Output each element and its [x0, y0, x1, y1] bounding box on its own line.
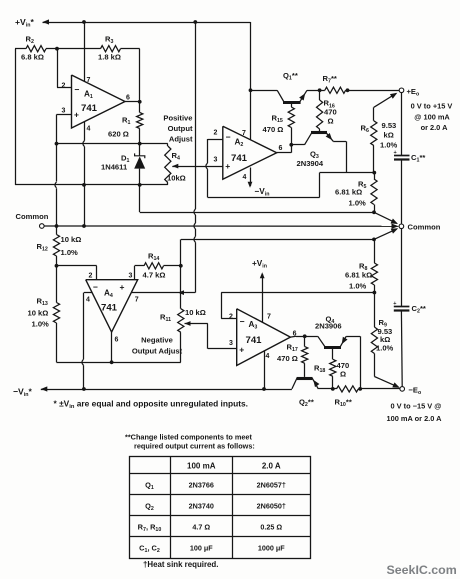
svg-text:1.0%: 1.0% — [380, 141, 398, 150]
svg-text:1N4611: 1N4611 — [101, 163, 128, 172]
svg-text:4: 4 — [243, 174, 247, 181]
svg-text:741: 741 — [81, 103, 98, 114]
svg-text:2: 2 — [229, 314, 233, 321]
svg-text:SeekIC.com: SeekIC.com — [387, 563, 457, 577]
wire A3 pin4 to -Vin rail — [264, 351, 266, 389]
svg-text:2.0 A: 2.0 A — [262, 462, 281, 471]
svg-text:7: 7 — [267, 314, 271, 321]
svg-text:6: 6 — [279, 145, 283, 152]
potentiometer R4 positive adjust — [165, 144, 186, 185]
wire Q4 collector drop — [360, 336, 362, 389]
resistor R9 — [371, 293, 393, 377]
junction Q4 drop/-Eo run — [358, 387, 362, 391]
wire A1-out drop to R11 column — [194, 22, 196, 293]
label -Eo output rating — [387, 402, 443, 424]
transistor Q1 — [251, 71, 320, 103]
svg-text:−: − — [75, 85, 80, 95]
wire A4 pin6 — [111, 332, 113, 362]
svg-text:−: − — [226, 132, 231, 142]
resistor R2 — [21, 35, 46, 62]
svg-text:4.7 Ω: 4.7 Ω — [192, 523, 210, 532]
svg-text:4.7 kΩ: 4.7 kΩ — [143, 271, 166, 280]
component table — [129, 456, 311, 559]
wire R2-R3 top — [15, 48, 140, 50]
svg-text:620 Ω: 620 Ω — [108, 130, 129, 139]
transistor Q4 — [305, 315, 361, 360]
wire A3 pin7 +Vin arrow — [260, 272, 265, 322]
wire A2 pin7 from +Vin — [250, 22, 252, 140]
watermark — [387, 563, 457, 577]
net +Vin label at A3 — [252, 259, 267, 270]
wire +Eo sense diagonal — [374, 93, 398, 108]
net -Vin label at A2 — [255, 187, 270, 198]
terminal -Eo — [400, 385, 422, 396]
wire A1 pin2 — [57, 49, 72, 88]
junction A4 pin6/output line — [110, 360, 114, 364]
label unregulated inputs footnote — [54, 399, 249, 411]
transistor Q2 — [292, 377, 320, 409]
wire R11 wiper to A3 pin3 — [185, 324, 237, 349]
junction R8 top/lower rail — [372, 238, 376, 242]
wire zener-anode node line — [15, 184, 168, 186]
svg-text:4: 4 — [86, 297, 90, 304]
svg-text:6.8 kΩ: 6.8 kΩ — [21, 53, 44, 62]
svg-text:3: 3 — [62, 108, 66, 115]
svg-text:3: 3 — [214, 157, 218, 164]
svg-text:741: 741 — [231, 153, 248, 164]
svg-text:Output Adjust: Output Adjust — [132, 347, 183, 356]
wire Q3 emitter sense drop — [346, 141, 348, 172]
label positive output adjust — [163, 113, 193, 143]
svg-text:Negative: Negative — [141, 336, 173, 345]
svg-text:7: 7 — [135, 297, 139, 304]
svg-text:2N6057†: 2N6057† — [257, 481, 286, 490]
junction R7/+Eo wire — [346, 88, 350, 92]
svg-text:1.0%: 1.0% — [349, 282, 367, 291]
svg-text:741: 741 — [101, 303, 118, 314]
svg-text:100 μF: 100 μF — [190, 544, 213, 553]
net -Vin label bottom — [13, 387, 32, 399]
svg-text:1.0%: 1.0% — [376, 344, 394, 353]
wire A4 output line — [57, 362, 181, 364]
svg-text:Positive: Positive — [163, 113, 192, 122]
svg-text:6: 6 — [115, 337, 119, 344]
resistor R3 — [98, 35, 121, 62]
wire R1 bottom lead — [139, 129, 141, 144]
junction common/A1 pin4 — [82, 224, 86, 228]
wire A1 pin7 supply — [84, 22, 86, 82]
label table heading — [125, 432, 255, 450]
resistor R16 — [317, 90, 337, 131]
svg-text:10 kΩ: 10 kΩ — [61, 235, 82, 244]
svg-text:1000 μF: 1000 μF — [258, 544, 285, 553]
junction +Vin/A1 pin7 — [82, 20, 86, 24]
svg-text:6: 6 — [126, 95, 130, 102]
svg-text:Common: Common — [16, 212, 49, 221]
wire Common rail — [44, 224, 398, 229]
wire A4 pin7 to R11 top — [131, 290, 195, 295]
capacitor C1 — [394, 93, 426, 224]
svg-text:kΩ: kΩ — [384, 131, 394, 140]
wire lower rail to common — [181, 239, 374, 241]
wire R4 wiper to A2 pin3 — [172, 166, 223, 168]
capacitor C2 — [393, 229, 426, 387]
svg-text:Common: Common — [408, 223, 441, 232]
junction A2 out/R15/Q3 collector — [289, 143, 293, 147]
resistor R15 — [263, 103, 295, 145]
wire zener-node rail to common arrow — [140, 185, 375, 213]
svg-text:Ω: Ω — [328, 117, 334, 126]
svg-text:0.25 Ω: 0.25 Ω — [260, 523, 282, 532]
svg-text:6.81 kΩ: 6.81 kΩ — [335, 188, 362, 197]
svg-text:@ 100 mA: @ 100 mA — [414, 112, 450, 121]
svg-text:1.0%: 1.0% — [32, 320, 50, 329]
transistor Q3 — [291, 133, 346, 169]
svg-text:4: 4 — [266, 353, 270, 360]
junction Q1 emitter/R7/R16 — [318, 88, 322, 92]
resistor R1 — [108, 102, 143, 139]
wire Vref line — [57, 143, 168, 145]
svg-text:1.0%: 1.0% — [349, 199, 367, 208]
resistor R18 — [314, 359, 349, 389]
net +Vin label — [15, 17, 34, 29]
svg-text:0 V to +15 V: 0 V to +15 V — [411, 102, 453, 111]
svg-text:Adjust: Adjust — [169, 134, 193, 143]
wire A1 pin6 output — [125, 101, 140, 103]
svg-text:741: 741 — [246, 335, 263, 346]
op-amp A2 — [214, 126, 283, 181]
resistor R6 — [361, 107, 398, 172]
wire lower rail diagonal into right common — [374, 228, 398, 239]
junction R5/R6 feedback node — [372, 171, 376, 175]
op-amp A1 — [62, 75, 131, 133]
op-amp A3 — [229, 309, 297, 366]
junction A4 pin4/-Vin rail — [82, 387, 86, 391]
junction R18/-Eo run — [331, 387, 335, 391]
wire A3 pin2 feedback — [221, 293, 374, 319]
svg-text:0 V to −15 V @: 0 V to −15 V @ — [391, 402, 442, 411]
junction R12/R13/A4 pin2 — [55, 264, 59, 268]
svg-text:10 kΩ: 10 kΩ — [28, 309, 49, 318]
wire rail diagonal into right common — [374, 212, 398, 224]
svg-text:†Heat sink required.: †Heat sink required. — [143, 560, 218, 569]
svg-text:−Vin*: −Vin* — [13, 387, 32, 399]
svg-text:−: − — [240, 317, 245, 327]
junction R2/R3/A1 pin2 — [55, 47, 59, 51]
resistor R8 — [345, 239, 378, 292]
svg-text:2: 2 — [214, 130, 218, 137]
resistor R7 — [320, 74, 348, 94]
junction A1 pin4/node line — [82, 183, 86, 187]
potentiometer R11 negative adjust — [160, 239, 206, 362]
svg-text:2N6050†: 2N6050† — [257, 502, 286, 511]
wire A2 pin4 to -Vin arrow — [248, 168, 253, 188]
terminal Common left — [16, 212, 49, 228]
svg-text:2N3904: 2N3904 — [297, 159, 324, 168]
svg-text:**Change listed components to: **Change listed components to meet — [125, 432, 252, 441]
wire -Vin rail — [41, 386, 292, 391]
svg-text:470: 470 — [324, 108, 337, 117]
terminal Common right — [399, 223, 441, 232]
svg-text:470 Ω: 470 Ω — [263, 125, 284, 134]
wire A3 pin6 output — [290, 335, 304, 338]
wire -Eo output run — [318, 388, 336, 390]
svg-text:or 2.0 A: or 2.0 A — [421, 123, 448, 132]
svg-text:100 mA: 100 mA — [187, 462, 216, 471]
wire A1 pin4 — [83, 122, 85, 226]
wire R3 feedback drop — [139, 49, 141, 102]
svg-text:2N3740: 2N3740 — [189, 502, 214, 511]
svg-text:9.53: 9.53 — [382, 121, 397, 130]
resistor R12 — [37, 226, 82, 266]
label heat sink footnote — [143, 560, 218, 569]
resistor R5 — [335, 173, 377, 213]
svg-text:Output: Output — [168, 124, 193, 133]
svg-text:10 kΩ: 10 kΩ — [185, 308, 206, 317]
junction A1 out/R3/R1 — [138, 100, 142, 104]
svg-text:+: + — [239, 345, 244, 355]
terminal +Eo — [399, 87, 420, 98]
svg-text:2: 2 — [62, 83, 66, 90]
wire R9 diagonal into -Eo — [374, 377, 399, 388]
svg-text:* ±Vin are equal and opposite: * ±Vin are equal and opposite unregulate… — [54, 399, 249, 411]
svg-text:7: 7 — [242, 130, 246, 137]
wire A4 pin4 to -Vin rail — [82, 293, 92, 390]
zener diode D1 1N4611 — [101, 144, 145, 185]
junction D1 anode/node line — [138, 183, 142, 187]
svg-text:−: − — [93, 282, 98, 292]
svg-text:2: 2 — [89, 273, 93, 280]
svg-text:100 mA or 2.0 A: 100 mA or 2.0 A — [387, 414, 443, 423]
junction +Vin/drop to R11 — [193, 20, 197, 24]
svg-text:+Vin*: +Vin* — [15, 17, 34, 29]
resistor R10 — [335, 386, 359, 408]
junction A3 out/R17/Q4 — [303, 334, 307, 338]
wire R7 to +Eo terminal — [348, 90, 400, 92]
op-amp A4 — [86, 273, 139, 344]
junction R5 bottom/rail — [372, 210, 376, 214]
resistor R17 — [277, 336, 308, 376]
wire to -Eo terminal — [358, 388, 400, 390]
svg-text:+: + — [394, 150, 397, 156]
svg-text:Ω: Ω — [340, 370, 346, 379]
svg-text:3: 3 — [129, 273, 133, 280]
junction common/R12 — [55, 224, 59, 228]
svg-text:1.8 kΩ: 1.8 kΩ — [98, 53, 121, 62]
resistor R14 — [135, 252, 181, 280]
junction pin7 branch to Q1 — [249, 88, 253, 92]
wire A4 pin2 — [57, 266, 97, 280]
svg-text:7: 7 — [87, 77, 91, 84]
wire A2 pin6 output — [277, 145, 292, 153]
svg-text:10kΩ: 10kΩ — [167, 173, 186, 182]
svg-text:4: 4 — [87, 126, 91, 133]
svg-text:+: + — [120, 282, 125, 292]
junction R8/R9 feedback node — [373, 291, 377, 295]
junction R14/R11 column — [179, 264, 183, 268]
junction A1 pin3/Vref line — [55, 142, 59, 146]
svg-text:2N3766: 2N3766 — [189, 481, 214, 490]
junction R1/D1/Vref — [138, 142, 142, 146]
svg-text:+: + — [393, 301, 396, 307]
svg-text:6.81 kΩ: 6.81 kΩ — [345, 271, 372, 280]
svg-text:2N3906: 2N3906 — [315, 322, 342, 331]
svg-text:3: 3 — [229, 340, 233, 347]
resistor R13 — [28, 266, 60, 363]
svg-text:470 Ω: 470 Ω — [277, 354, 298, 363]
junction A3 pin4/-Vin rail — [262, 387, 266, 391]
svg-text:+: + — [74, 110, 79, 120]
label +Eo output rating — [411, 102, 453, 133]
wire A1 pin3 to common column — [55, 115, 72, 227]
svg-text:+: + — [225, 161, 230, 171]
svg-text:1.0%: 1.0% — [61, 248, 79, 257]
svg-text:required output current as fol: required output current as follows: — [134, 442, 255, 451]
wire A4 pin3 stub — [134, 266, 136, 280]
label negative output adjust — [132, 336, 183, 356]
wire A2 pin2 feedback — [206, 139, 374, 198]
wire left column from R2 — [15, 49, 17, 185]
wire +Vin rail — [43, 19, 251, 24]
